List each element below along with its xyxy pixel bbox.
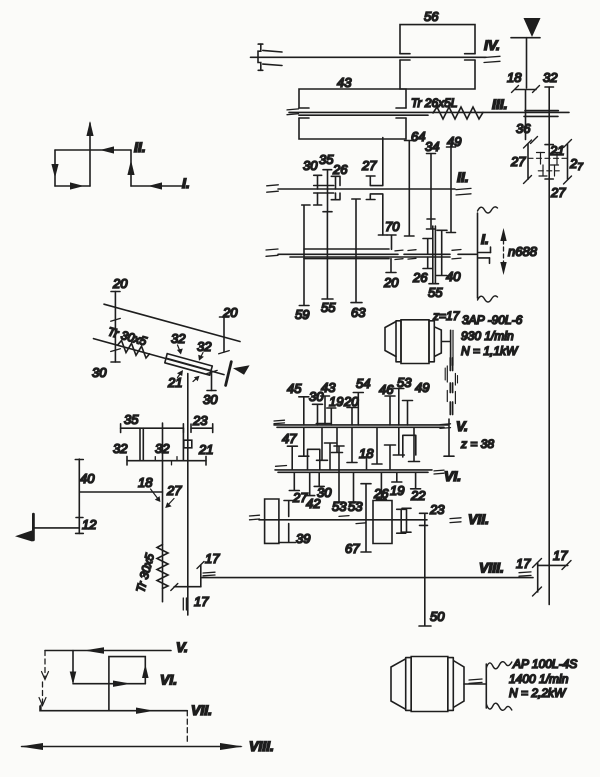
shaft II right end marks (456, 188, 471, 189)
svg-text:VII.: VII. (468, 511, 489, 527)
gear mesh ladder (450, 358, 452, 415)
shaft IV left centre symbol (258, 43, 263, 45)
gear 64 line (405, 141, 415, 237)
svg-text:20: 20 (383, 275, 399, 290)
svg-text:V.: V. (176, 639, 188, 655)
gear pair 20/30 left vertical (114, 292, 116, 363)
shaft VI (275, 469, 432, 471)
gear 36 vertical line (525, 90, 527, 140)
svg-text:z=17: z=17 (432, 309, 461, 323)
svg-text:27: 27 (510, 154, 526, 169)
shaft VIII left end marks (203, 572, 215, 576)
svg-text:53: 53 (332, 499, 347, 514)
drum hooks lower + gear 39 (279, 524, 296, 543)
gear 26 below VI (376, 472, 386, 499)
flow solid vertical to VI loop (72, 651, 74, 683)
svg-text:AP 100L-4S: AP 100L-4S (512, 657, 577, 671)
flow dashed left path (44, 651, 46, 678)
bevel 17 on vertical shaft left (174, 586, 201, 588)
gear 26 on shaft I (423, 239, 432, 269)
gear 50 line down to VIII (419, 525, 431, 626)
svg-text:36: 36 (516, 121, 531, 136)
svg-text:40: 40 (446, 269, 461, 284)
svg-text:49: 49 (415, 380, 429, 395)
bevel 17 on shaft VIII left (200, 565, 202, 587)
gear 49 line (447, 147, 456, 233)
svg-text:32: 32 (171, 331, 186, 346)
shaft VII overlap marks (339, 516, 366, 524)
svg-text:VII.: VII. (191, 702, 212, 718)
svg-text:18: 18 (138, 475, 153, 490)
svg-text:35: 35 (124, 412, 139, 427)
arrow up out top (86, 121, 93, 136)
motor M1 left cap (385, 322, 396, 357)
svg-text:23: 23 (429, 502, 445, 517)
svg-text:56: 56 (424, 9, 439, 24)
svg-text:59: 59 (295, 307, 309, 322)
mesh ticks right (219, 351, 230, 354)
gear 30 right vertical (211, 372, 213, 391)
cluster bottom bar (127, 460, 206, 462)
bevel 17 on shaft VIII right (537, 563, 539, 592)
drum hooks upper (284, 501, 294, 517)
apron dashed lines (528, 157, 568, 159)
coupling marks (469, 679, 482, 683)
motor M1 right flange (429, 321, 434, 362)
small arrow at block right bottom (193, 378, 198, 382)
inclined upper shaft (104, 304, 240, 341)
svg-text:19: 19 (329, 394, 343, 409)
hub bars cluster II (314, 185, 334, 187)
svg-text:20: 20 (343, 394, 359, 409)
motor M2 right cap (453, 661, 464, 708)
svg-text:17: 17 (205, 551, 220, 566)
cap of 27 lower (378, 234, 387, 236)
gear 55 line (322, 212, 333, 299)
gear 19 below VI (392, 472, 402, 482)
shaft VI end marks left (276, 465, 287, 468)
motor M1 left flange (396, 321, 401, 362)
gear 54 mirror (372, 427, 382, 464)
shaft II left end marks (267, 185, 279, 186)
motor M2 right flange (448, 658, 454, 711)
gear 34 line (427, 154, 436, 230)
cluster bars on shaft I (304, 248, 389, 250)
svg-text:930 1/min: 930 1/min (461, 329, 514, 343)
gear 43 (321, 396, 330, 424)
gear 30 (313, 404, 323, 425)
belt wavy top (486, 662, 512, 669)
svg-text:55: 55 (428, 285, 443, 300)
wall line to triangle (33, 527, 79, 529)
svg-text:21: 21 (549, 143, 564, 158)
vertical 183 (182, 428, 184, 461)
svg-text:VIII.: VIII. (479, 560, 504, 576)
svg-text:IV.: IV. (484, 37, 500, 53)
thread zigzag on lower inclined shaft (118, 341, 150, 359)
gear 46 (385, 396, 395, 425)
gear 40 on shaft I (436, 230, 447, 275)
gear 20 (347, 408, 357, 425)
arrow right on bottom (70, 182, 84, 189)
svg-text:53: 53 (397, 375, 412, 390)
gear 27 on II upper bracket (366, 138, 383, 186)
svg-text:27: 27 (361, 158, 377, 173)
shaft I lower line (290, 256, 450, 258)
svg-text:27: 27 (569, 156, 583, 173)
sliding block 32-32-21 (165, 354, 213, 376)
shaft III left end marks (287, 109, 299, 110)
coupling pair on VII (397, 509, 406, 533)
bevel 17 on right vertical shaft (538, 564, 568, 566)
gear 67 long line (361, 484, 371, 552)
motor M1 right cap (434, 327, 441, 357)
svg-text:z = 38: z = 38 (460, 437, 494, 451)
svg-text:32: 32 (113, 441, 128, 456)
shaft VIII (202, 577, 533, 579)
tool slide symbol top right (filled triangle) (524, 18, 541, 37)
svg-text:26: 26 (332, 162, 348, 177)
wall filled triangle (15, 530, 33, 541)
svg-text:70: 70 (385, 219, 400, 234)
gear 40 vertical (78, 459, 80, 533)
inclined lower shaft (94, 339, 225, 375)
tool slide bar at end of upper shaft (226, 362, 232, 386)
gear 49 (403, 401, 413, 425)
vertical shaft from slide (526, 38, 528, 88)
spindle bracket vertical (477, 213, 479, 298)
shaft IV (251, 56, 487, 58)
svg-text:45: 45 (287, 381, 302, 396)
svg-text:30: 30 (203, 392, 218, 407)
gear 27 below VI (305, 472, 315, 495)
gear 27 lower bracket (366, 194, 383, 235)
spindle wavy break top (478, 207, 498, 213)
svg-text:54: 54 (356, 376, 370, 391)
mesh gear pair V-VI a (308, 449, 320, 470)
svg-text:30: 30 (92, 365, 107, 380)
shaft I upper line (278, 253, 477, 255)
svg-text:39: 39 (296, 531, 310, 546)
svg-text:V.: V. (456, 418, 468, 434)
belt wavy bottom (486, 703, 512, 710)
svg-text:32: 32 (197, 339, 212, 354)
arrow up on right vertical (127, 160, 134, 175)
shaft VIII right end marks (519, 572, 531, 576)
svg-text:27: 27 (166, 483, 182, 498)
svg-text:18: 18 (507, 70, 522, 85)
svg-text:Tr 30x5: Tr 30x5 (133, 552, 157, 594)
motor M2 left flange (406, 658, 412, 711)
shaft III (289, 111, 569, 113)
top bar right section gear 23 (191, 427, 213, 429)
gear 26 on II (331, 176, 340, 189)
gear 54 (353, 393, 363, 425)
svg-text:17: 17 (553, 548, 568, 563)
gear 53 (394, 389, 404, 425)
gear 43 upper rect (299, 89, 406, 108)
gear 59 line (299, 205, 310, 306)
motor M2 left cap (391, 659, 406, 710)
svg-text:17: 17 (516, 556, 531, 571)
slider bar 30-19 (316, 423, 331, 425)
wire flow up-branch vertical (89, 123, 91, 186)
wire flow II horizontal (55, 149, 131, 151)
flow dashed drop to VIII (186, 711, 188, 743)
shaft VII right end marks (450, 518, 461, 523)
gear 56 upper rect (400, 25, 475, 54)
svg-text:1400 1/min: 1400 1/min (509, 672, 569, 686)
slider double vertical 32 (140, 428, 143, 461)
apron gearbox frame (527, 144, 529, 179)
leadscrew thread Tr26x5 zigzag on shaft III (433, 107, 483, 119)
svg-text:67: 67 (345, 541, 360, 556)
coupling square on vertical shaft (184, 440, 192, 448)
svg-text:VI.: VI. (444, 468, 461, 484)
bevel tick 36 (531, 137, 538, 144)
svg-text:27: 27 (550, 185, 566, 200)
svg-text:3AP -90L-6: 3AP -90L-6 (462, 313, 523, 327)
gear 32 vertical line (down to apron) (545, 86, 554, 88)
wire flow right vertical (130, 150, 132, 186)
gear 47 between V-VI (287, 446, 297, 470)
svg-text:VI.: VI. (160, 672, 177, 688)
gear 19 (327, 408, 336, 425)
svg-text:26: 26 (412, 270, 428, 285)
gear a below VI (289, 472, 299, 490)
gear 43 lower rect (299, 118, 406, 139)
svg-text:46: 46 (379, 382, 394, 397)
arrow left on I (148, 182, 162, 189)
vertical shaft end marks (183, 598, 186, 610)
shaft VI right end marks (434, 470, 444, 474)
flow VI loop bottom (73, 683, 145, 685)
svg-text:12: 12 (82, 517, 97, 532)
spindle chuck lines (479, 253, 491, 258)
svg-text:III.: III. (492, 96, 508, 112)
gear 56 lower rect (400, 60, 475, 89)
gear 26 lower half (331, 193, 340, 200)
svg-text:64: 64 (411, 129, 425, 144)
mesh gear pair V-VI b (385, 445, 396, 470)
svg-text:43: 43 (321, 380, 336, 395)
svg-text:19: 19 (390, 483, 404, 498)
svg-text:42: 42 (306, 496, 321, 511)
main vertical shaft from block (187, 374, 189, 616)
svg-text:40: 40 (80, 471, 95, 486)
svg-text:50: 50 (430, 609, 445, 624)
gear 22 below VI (411, 472, 421, 489)
svg-text:Tr 26x5L: Tr 26x5L (411, 96, 457, 110)
wall bar (32, 514, 35, 540)
shaft II (278, 188, 455, 190)
flow VIII line (22, 746, 241, 748)
gear 18 on VI (362, 457, 372, 470)
thread zigzag vertical shaft (157, 545, 168, 589)
shaft I break marks (395, 250, 403, 259)
svg-text:17: 17 (194, 594, 209, 609)
svg-text:55: 55 (321, 300, 336, 315)
svg-text:32: 32 (543, 70, 558, 85)
svg-text:20: 20 (222, 305, 238, 320)
gear 53 rail (334, 446, 344, 502)
svg-text:43: 43 (337, 75, 352, 90)
svg-text:49: 49 (447, 134, 461, 149)
svg-text:34: 34 (425, 139, 439, 154)
svg-text:63: 63 (351, 305, 366, 320)
shaft V right end marks (440, 424, 451, 429)
svg-text:N = 2,2kW: N = 2,2kW (509, 686, 567, 700)
gear 20 below shaft I (386, 259, 396, 273)
gear 63 line (351, 199, 362, 303)
pulley drum left on VII (265, 499, 279, 543)
pinion z=17 (450, 330, 452, 365)
slider pair on shaft I (429, 226, 439, 284)
tool slide filled triangle (233, 365, 250, 375)
svg-text:II.: II. (134, 139, 146, 155)
apron shaft caps (545, 145, 553, 179)
shaft V (274, 424, 448, 426)
mesh line 40 to shaft (79, 491, 162, 493)
gear 53 second (349, 472, 359, 502)
gear 30 below VI (314, 472, 324, 486)
svg-text:VIII.: VIII. (249, 738, 274, 754)
belt pulley (485, 664, 487, 708)
svg-text:n688: n688 (508, 244, 538, 259)
svg-text:30: 30 (303, 158, 318, 173)
svg-text:I.: I. (182, 175, 190, 191)
bevel gear 18 marks (516, 89, 537, 91)
wire flow bottom horizontal (55, 185, 90, 187)
gear 20 right vertical (223, 317, 225, 352)
wire flow left vertical (54, 150, 56, 186)
gear 45 mirror (299, 427, 309, 456)
svg-text:35: 35 (319, 152, 334, 167)
gear 45 (299, 397, 309, 425)
long vertical shaft Tr30x5 (162, 423, 164, 602)
svg-text:I.: I. (481, 231, 489, 247)
shaft IV right end marks (484, 56, 500, 57)
svg-text:Tr 30x5: Tr 30x5 (106, 324, 148, 348)
svg-text:26: 26 (373, 486, 389, 501)
svg-text:21: 21 (198, 442, 213, 457)
svg-text:20: 20 (112, 276, 128, 291)
gear 30 on II (314, 175, 322, 189)
motor M1 shaft (441, 341, 450, 343)
motor M2 body (411, 657, 448, 712)
shaft VII (259, 519, 427, 521)
shaft VII end marks left (250, 515, 260, 520)
svg-text:53: 53 (348, 499, 363, 514)
gear 23 on VII (420, 513, 428, 520)
flow V line (45, 650, 171, 652)
apron inner gears (540, 153, 542, 165)
pulley drum right on VII (373, 501, 392, 544)
svg-text:23: 23 (192, 413, 208, 428)
svg-text:22: 22 (410, 488, 426, 503)
svg-text:18: 18 (359, 446, 374, 461)
gear 35 on II (323, 170, 332, 212)
gear 30 lower half (314, 193, 322, 205)
spindle wavy break bottom (478, 296, 498, 302)
motor M1 body (401, 320, 429, 364)
gear z38 on shaft V (444, 419, 454, 456)
svg-text:II.: II. (457, 169, 469, 185)
shaft V end marks left (274, 420, 285, 424)
arrow left on II (100, 146, 114, 153)
n688 dashed arrow (503, 233, 505, 270)
wire flow I horizontal (131, 185, 184, 187)
mesh ticks left (111, 318, 121, 321)
shaft I left end marks (266, 249, 278, 250)
gear 20 mirror (347, 427, 357, 462)
gear hub bars on shaft III (525, 110, 558, 112)
gear 70 (387, 235, 396, 249)
svg-text:21: 21 (167, 375, 182, 390)
flow VI loop rect (109, 657, 145, 711)
arrow down on left vertical (51, 164, 58, 178)
motor M2 shaft (464, 683, 486, 685)
svg-text:47: 47 (282, 431, 297, 446)
feed gear cluster top bar (121, 427, 184, 429)
flow VII line (40, 706, 187, 711)
svg-text:N = 1,1kW: N = 1,1kW (461, 344, 519, 358)
